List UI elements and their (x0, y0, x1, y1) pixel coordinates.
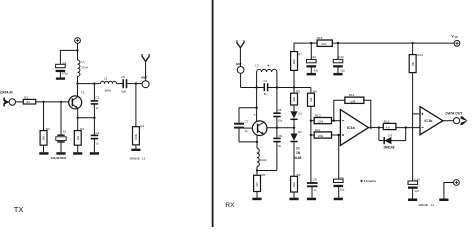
inductor L1 27nH (78, 59, 88, 76)
diode D1 1N4148 (290, 111, 302, 119)
net A column wire (310, 106, 312, 135)
svg-text:R7: R7 (298, 52, 302, 56)
wire R10 to IC1a (332, 120, 341, 122)
node minus input (405, 126, 407, 128)
ground under R8 (252, 198, 261, 201)
D3 branch bottom left (379, 140, 384, 142)
svg-text:R5: R5 (296, 90, 300, 94)
svg-text:C7: C7 (245, 119, 249, 123)
node X1 tap (60, 101, 62, 103)
wire emitter down (77, 108, 79, 131)
input row wire right (268, 87, 311, 89)
wire R5 to D1 (293, 105, 295, 111)
svg-text:T1: T1 (81, 90, 85, 94)
svg-text:RX: RX (225, 202, 235, 209)
svg-text:CC: CC (455, 36, 459, 39)
svg-text:68nH: 68nH (105, 89, 111, 93)
ground terminal bottom right (454, 180, 460, 186)
wire ANT down to input row (240, 73, 242, 87)
wire R4 to ground (135, 145, 137, 149)
wire R8 to ground (256, 192, 258, 198)
Vcc terminal (451, 34, 460, 46)
svg-text:1n: 1n (96, 141, 99, 145)
svg-text:C4: C4 (263, 79, 267, 83)
C7 bottom stub wire (239, 141, 257, 143)
svg-text:4148: 4148 (294, 156, 302, 160)
capacitor C5 6p8 (121, 75, 126, 94)
resistor R11 100k (311, 128, 332, 138)
wire R9 to ground (293, 192, 295, 198)
node collector/top row (76, 82, 78, 84)
svg-text:R6: R6 (313, 90, 317, 94)
svg-text:47k: 47k (386, 126, 391, 130)
input row wire left (241, 87, 265, 89)
node supply/C1 (76, 49, 78, 51)
diode D3 (383, 133, 394, 149)
node C21 rail (310, 42, 312, 44)
svg-text:1n: 1n (313, 188, 316, 192)
svg-text:L1: L1 (81, 59, 85, 63)
capacitor C8 1n (307, 178, 318, 198)
wire R7 to input row (293, 70, 295, 87)
svg-text:DATA IN: DATA IN (0, 91, 13, 95)
ground under X1 (56, 152, 65, 155)
2x 1N4148 label (294, 146, 302, 159)
svg-text:2x: 2x (296, 146, 300, 150)
svg-text:D3: D3 (388, 133, 392, 137)
node D3 left (378, 126, 380, 128)
svg-text:470µ: 470µ (62, 71, 68, 75)
svg-text:27nH: 27nH (81, 66, 87, 70)
ground under C16 (408, 199, 417, 202)
detector row wire (267, 127, 294, 129)
node R5 top (293, 86, 295, 88)
capacitor C4 TX (91, 118, 100, 153)
svg-text:5p: 5p (278, 144, 281, 148)
svg-text:180: 180 (76, 135, 80, 140)
feedback wire up (334, 100, 345, 120)
diode D2 1N4148 (290, 130, 302, 142)
svg-text:100k: 100k (134, 133, 138, 139)
tank right rail (276, 74, 278, 113)
svg-text:680: 680 (292, 59, 296, 64)
svg-text:R11: R11 (315, 128, 321, 132)
ground under C21 (307, 73, 316, 76)
svg-text:R1: R1 (24, 95, 28, 99)
resistor R10 100k (311, 114, 332, 124)
ground under C4 (90, 152, 99, 155)
resistor R14 (409, 43, 423, 73)
D3 branch right riser (391, 128, 405, 141)
emitter column wire (257, 135, 260, 137)
op-amp IC1b (420, 107, 443, 135)
wire emitter node to C6 column (257, 170, 277, 172)
node C5/C6 junction (276, 127, 278, 129)
wire node to R4 (135, 84, 137, 127)
op-amp IC1a (340, 110, 368, 146)
svg-text:10p: 10p (278, 119, 283, 123)
svg-text:8p: 8p (264, 92, 267, 96)
node tank left (255, 86, 257, 88)
svg-text:C21: C21 (311, 55, 317, 59)
resistor R5 (291, 88, 301, 106)
transistor T1 TX (69, 90, 85, 109)
ground under C8 (307, 198, 316, 201)
node D1/D2 junction (293, 127, 295, 129)
svg-text:R2: R2 (46, 127, 50, 131)
ANT terminal RX (237, 67, 244, 74)
node emitter/C7 (256, 141, 258, 143)
svg-text:TX: TX (14, 205, 24, 214)
svg-text:C9: C9 (340, 176, 344, 180)
supply terminal + (75, 38, 81, 44)
ground under terminal (439, 199, 448, 202)
capacitor C16 4u7 (408, 177, 420, 198)
svg-text:R3: R3 (80, 127, 84, 131)
antenna RX (236, 40, 245, 66)
wire R11 to IC1a (332, 134, 341, 136)
resistor R15 47k (383, 120, 396, 130)
resistor R7 (291, 52, 303, 71)
svg-text:R9: R9 (297, 173, 301, 177)
svg-text:R4: R4 (140, 124, 144, 128)
resistor R9 (291, 173, 301, 192)
inductor L4 2uH2 (257, 149, 267, 167)
wire R1 to base (36, 101, 69, 103)
node emitter bottom (256, 169, 258, 171)
svg-text:C5: C5 (278, 108, 282, 112)
wire R15 to node (396, 127, 420, 129)
wire C1 to ground (59, 72, 61, 77)
capacitor C6 5p6 (273, 134, 282, 170)
svg-text:ANT: ANT (235, 62, 242, 66)
node C3 top (93, 82, 95, 84)
svg-text:L2: L2 (104, 77, 108, 81)
resistor R1 4k7 (23, 95, 35, 104)
resistor R2 (40, 127, 50, 145)
wire C9 column (338, 135, 340, 179)
wire L1 to collector row (77, 76, 79, 96)
wire supply down (77, 43, 79, 60)
svg-text:C8: C8 (313, 178, 317, 182)
svg-text:R15: R15 (384, 120, 390, 124)
ground under R2 (39, 152, 48, 155)
wire net A down to C8 (310, 135, 312, 183)
node R14 rail (411, 42, 413, 44)
svg-text:C12: C12 (338, 55, 344, 59)
D3 branch left riser (378, 128, 380, 141)
DATA IN terminal circle (9, 99, 15, 105)
svg-text:33k: 33k (292, 96, 296, 101)
capacitor C12 10u (333, 43, 345, 73)
inductor L3 (255, 63, 277, 74)
svg-text:IC1a: IC1a (347, 126, 356, 130)
crystal X1 433,92MHz (56, 102, 67, 152)
svg-text:1M8: 1M8 (350, 99, 356, 103)
capacitor C5 10p (273, 108, 282, 138)
tank left rail (256, 74, 258, 122)
wire L2 to C5 (117, 83, 124, 85)
net A corner wire (310, 88, 312, 94)
svg-text:980638 - 13: 980638 - 13 (130, 156, 146, 160)
resistor R16 10 ohm (317, 36, 332, 46)
wire to C1 (60, 50, 77, 64)
svg-text:47µ: 47µ (314, 69, 319, 73)
node output feedback (370, 126, 372, 128)
svg-text:4k7: 4k7 (26, 100, 31, 104)
svg-text:4µ7: 4µ7 (414, 189, 419, 193)
capacitor C7 4p (234, 108, 249, 142)
svg-text:433,92 MHz: 433,92 MHz (51, 156, 67, 160)
resistor R12 1M8 (345, 93, 364, 103)
svg-text:C1: C1 (63, 61, 67, 65)
svg-text:1N4148: 1N4148 (383, 146, 394, 150)
svg-text:ANT: ANT (140, 76, 148, 80)
C7 top stub wire (239, 107, 257, 109)
svg-text:4p: 4p (245, 129, 248, 133)
ground under C1 (56, 77, 65, 79)
svg-text:56k: 56k (42, 135, 46, 140)
IC1a output wire (369, 127, 384, 129)
ground under R4 (131, 149, 140, 151)
svg-text:10µ: 10µ (340, 69, 345, 73)
wire C5 to ANT (127, 83, 143, 85)
svg-text:T1: T1 (253, 113, 257, 117)
DATA IN pin symbol (4, 98, 8, 107)
resistor R8 (254, 173, 266, 192)
capacitor C3 1p (91, 96, 100, 110)
svg-text:980638 - 14: 980638 - 14 (418, 203, 434, 207)
node R10 (310, 120, 312, 122)
svg-text:X1: X1 (63, 129, 67, 133)
capacitor C4 RX 8p2 (263, 79, 267, 96)
svg-text:1p: 1p (96, 106, 99, 110)
antenna TX (141, 54, 150, 81)
ground under R3 (73, 152, 82, 155)
wire C3 column (93, 84, 95, 101)
DATA OUT pin symbol (461, 116, 468, 125)
node C9 tap (338, 134, 340, 136)
svg-text:R10: R10 (315, 114, 321, 118)
capacitor C9 10u (334, 176, 345, 198)
ANT terminal TX (140, 76, 149, 88)
svg-text:R16: R16 (317, 36, 323, 40)
wire emitter row (78, 117, 95, 119)
svg-text:R12: R12 (349, 93, 355, 97)
resistor R6 (308, 90, 318, 107)
wire R3 to ground (77, 145, 79, 152)
svg-text:1N: 1N (296, 151, 301, 155)
base stub (244, 127, 253, 129)
node C12 rail (337, 42, 339, 44)
wire input to R1 (16, 101, 24, 103)
ground under C12 (333, 73, 342, 76)
svg-text:2µH2: 2µH2 (260, 158, 267, 162)
node tank right (276, 86, 278, 88)
svg-text:R8: R8 (261, 173, 265, 177)
svg-text:L3: L3 (255, 63, 259, 67)
IC1b output wire (443, 120, 454, 122)
ground under C9 (334, 198, 343, 201)
DATA OUT terminal (454, 118, 460, 124)
node emitter row right (93, 117, 95, 119)
ground under R9 (289, 198, 298, 201)
svg-text:330: 330 (255, 182, 259, 187)
capacitor C1 470u (56, 61, 69, 75)
wire ground terminal (444, 183, 454, 199)
capacitor C21 47u (307, 43, 319, 73)
svg-text:R14: R14 (417, 53, 423, 57)
svg-text:✱ 1,5 turns: ✱ 1,5 turns (360, 179, 376, 183)
transistor T1 RX (252, 113, 267, 136)
wire top row to L2 (78, 83, 101, 85)
node R11 (310, 134, 312, 136)
svg-text:10µ: 10µ (340, 187, 345, 191)
wire R2 column (43, 102, 45, 131)
svg-text:10k: 10k (411, 62, 415, 67)
node feedback tap (333, 120, 335, 122)
feedback wire down (364, 100, 371, 127)
wire D1 to D2 (293, 119, 295, 133)
svg-text:C4: C4 (96, 131, 100, 135)
svg-text:100k: 100k (318, 120, 324, 124)
plus input stub (413, 113, 420, 115)
svg-text:100k: 100k (318, 134, 324, 138)
svg-text:6p8: 6p8 (121, 90, 126, 94)
node R4 tap (135, 82, 137, 84)
node C7 top stub (255, 107, 257, 109)
svg-text:D1: D1 (298, 112, 302, 116)
svg-text:DATA OUT: DATA OUT (445, 112, 463, 116)
svg-text:IC1b: IC1b (424, 119, 433, 123)
svg-text:C16: C16 (414, 177, 420, 181)
resistor R3 (74, 127, 84, 145)
wire L4 to node (256, 167, 258, 176)
resistor R4 (133, 124, 145, 144)
node emitter row left (77, 117, 79, 119)
svg-text:10Ω: 10Ω (321, 42, 326, 46)
svg-text:D2: D2 (298, 130, 302, 134)
svg-text:C5: C5 (121, 75, 125, 79)
svg-text:33k: 33k (309, 97, 313, 102)
R14 column down to C16 (412, 73, 414, 181)
panel divider (212, 0, 214, 227)
svg-text:2M2: 2M2 (292, 182, 296, 188)
inductor L2 68nH (101, 77, 117, 93)
wire D2 to R9 (293, 142, 295, 177)
top rail RX (294, 43, 454, 52)
svg-text:C6: C6 (278, 134, 282, 138)
node R2 tap (42, 101, 44, 103)
svg-text:C3: C3 (95, 96, 99, 100)
